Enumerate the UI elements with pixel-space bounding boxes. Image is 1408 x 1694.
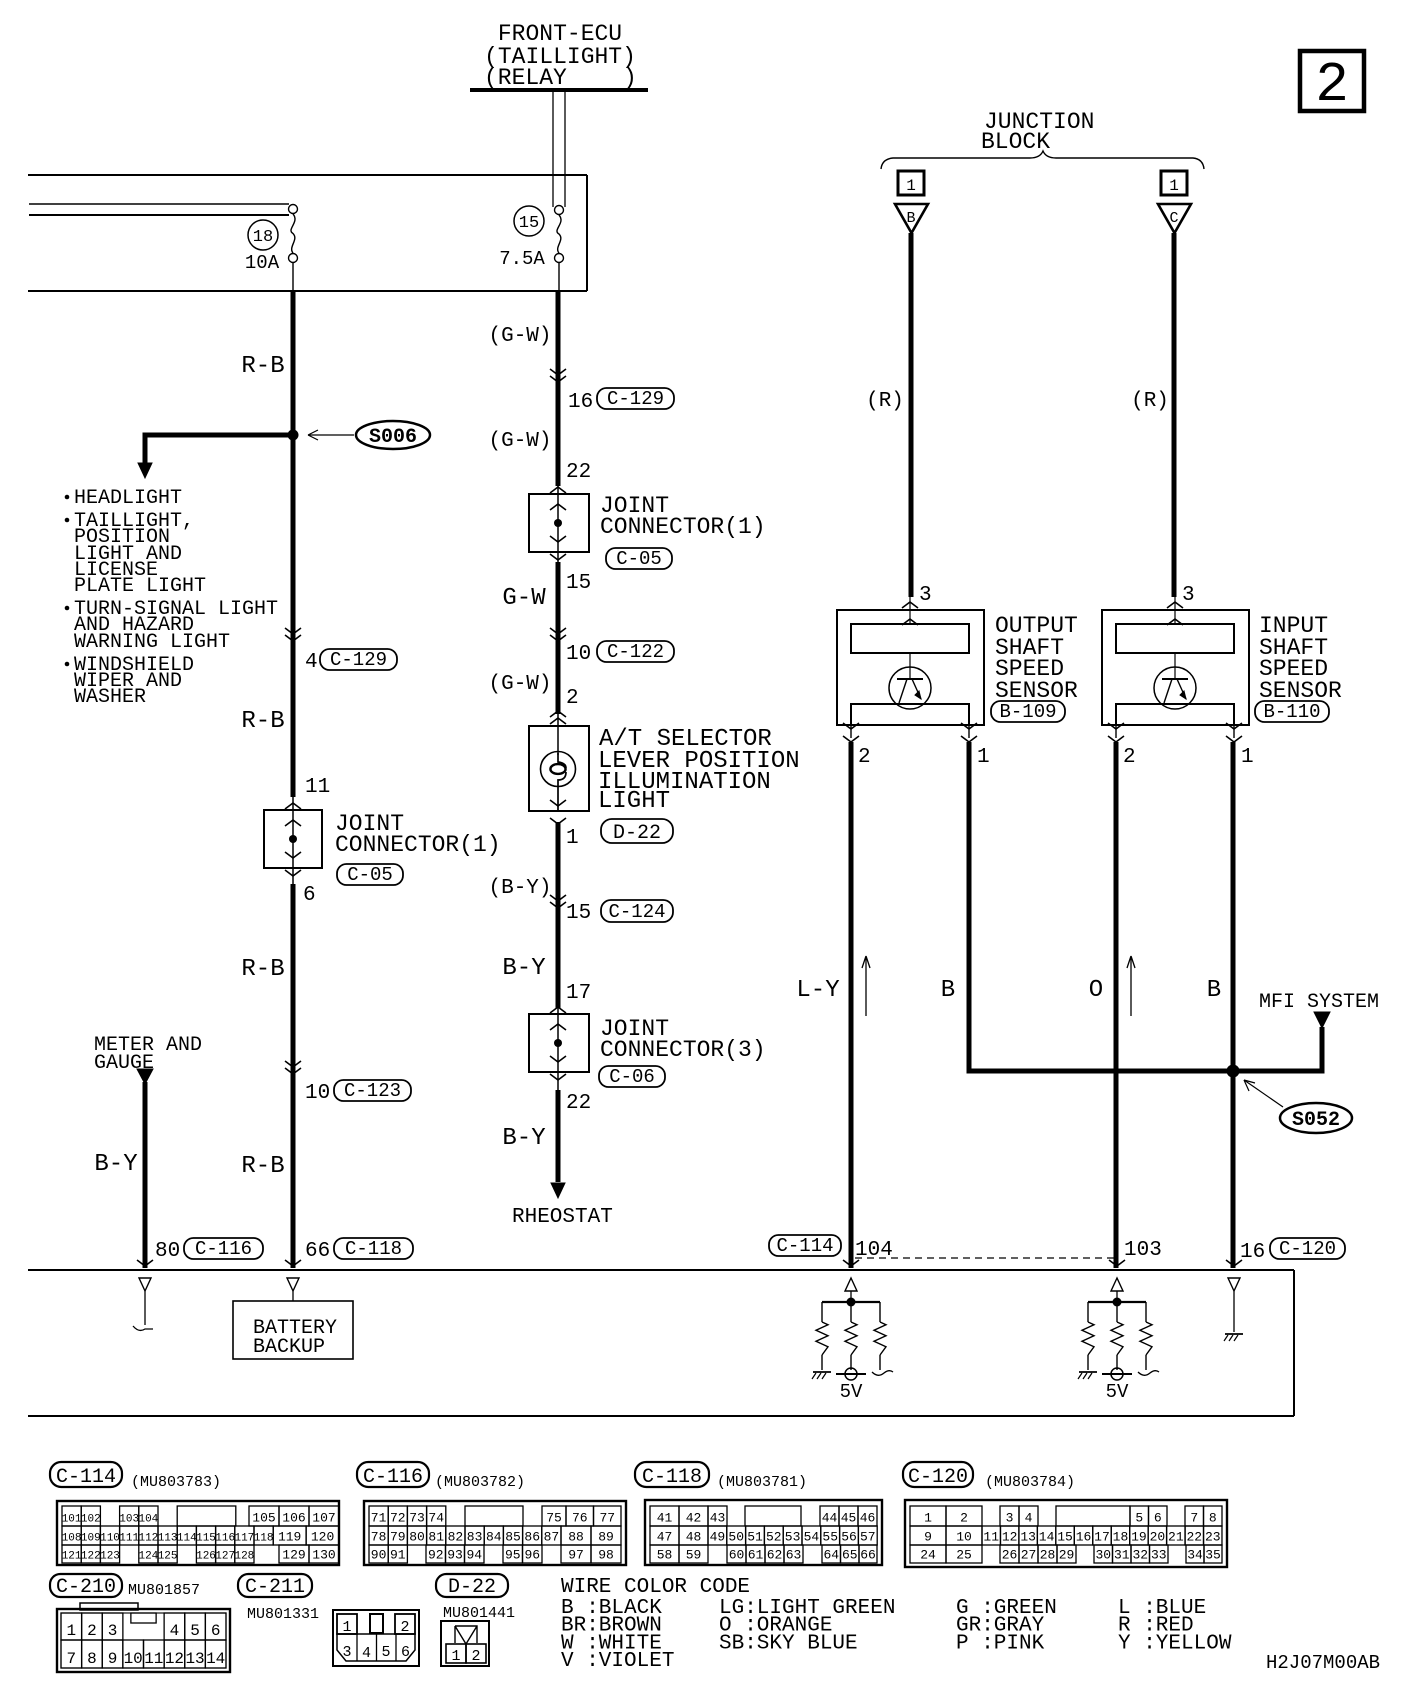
svg-text:WASHER: WASHER — [74, 686, 146, 709]
svg-text:B-Y: B-Y — [502, 1125, 545, 1152]
svg-text:C-06: C-06 — [609, 1066, 655, 1088]
svg-text:Y :YELLOW: Y :YELLOW — [1118, 1632, 1232, 1655]
svg-text:14: 14 — [1039, 1530, 1055, 1545]
svg-text:(R): (R) — [866, 390, 904, 413]
svg-text:116: 116 — [215, 1533, 235, 1545]
svg-text:5: 5 — [381, 1644, 390, 1661]
svg-text:1: 1 — [67, 1622, 77, 1640]
svg-text:C-210: C-210 — [56, 1576, 116, 1599]
svg-text:B: B — [906, 210, 915, 227]
svg-text:10: 10 — [305, 1082, 330, 1105]
svg-text:98: 98 — [598, 1548, 614, 1563]
svg-text:11: 11 — [144, 1650, 163, 1668]
svg-text:75: 75 — [546, 1511, 562, 1526]
svg-text:15: 15 — [566, 572, 591, 595]
svg-text:58: 58 — [657, 1548, 673, 1563]
svg-text:106: 106 — [282, 1511, 305, 1526]
svg-text:2: 2 — [960, 1511, 968, 1526]
svg-text:7.5A: 7.5A — [499, 248, 545, 270]
svg-text:22: 22 — [566, 461, 591, 484]
svg-text:32: 32 — [1132, 1548, 1148, 1563]
svg-text:C-118: C-118 — [345, 1238, 402, 1260]
svg-text:108: 108 — [62, 1533, 82, 1545]
svg-text:54: 54 — [804, 1530, 820, 1545]
svg-text:C-05: C-05 — [347, 864, 393, 886]
svg-text:12: 12 — [165, 1650, 184, 1668]
svg-text:2: 2 — [1123, 746, 1136, 769]
svg-text:D-22: D-22 — [448, 1576, 496, 1599]
svg-text:96: 96 — [524, 1548, 540, 1563]
svg-text:90: 90 — [371, 1548, 387, 1563]
svg-text:13: 13 — [185, 1650, 204, 1668]
svg-text:128: 128 — [234, 1551, 254, 1563]
svg-text:55: 55 — [822, 1530, 838, 1545]
svg-text:1: 1 — [566, 827, 579, 850]
svg-text:52: 52 — [766, 1530, 782, 1545]
svg-text:126: 126 — [196, 1551, 216, 1563]
svg-text:24: 24 — [920, 1548, 936, 1563]
svg-text:103: 103 — [119, 1514, 139, 1526]
svg-text:(G-W): (G-W) — [488, 673, 551, 696]
svg-text:4: 4 — [1025, 1511, 1033, 1526]
svg-text:5V: 5V — [1106, 1381, 1129, 1403]
svg-text:35: 35 — [1205, 1548, 1221, 1563]
svg-text:C-124: C-124 — [608, 901, 665, 923]
svg-text:C-129: C-129 — [330, 649, 387, 671]
svg-text:87: 87 — [544, 1530, 560, 1545]
svg-text:29: 29 — [1059, 1548, 1075, 1563]
svg-text:C-118: C-118 — [642, 1466, 702, 1489]
svg-text:26: 26 — [1002, 1548, 1018, 1563]
svg-text:103: 103 — [1124, 1239, 1162, 1262]
svg-text:C-122: C-122 — [607, 641, 664, 663]
svg-text:6: 6 — [1154, 1511, 1162, 1526]
svg-text:114: 114 — [177, 1533, 197, 1545]
svg-text:9: 9 — [924, 1530, 932, 1545]
svg-text:122: 122 — [81, 1551, 101, 1563]
svg-text:77: 77 — [599, 1511, 615, 1526]
svg-text:17: 17 — [566, 982, 591, 1005]
svg-text:28: 28 — [1040, 1548, 1056, 1563]
svg-text:L-Y: L-Y — [796, 977, 839, 1004]
svg-text:11: 11 — [305, 776, 330, 799]
svg-text:B: B — [1207, 977, 1221, 1004]
svg-text:47: 47 — [657, 1530, 673, 1545]
svg-text:80: 80 — [155, 1240, 180, 1263]
svg-text:C-129: C-129 — [607, 388, 664, 410]
svg-text:H2J07M00AB: H2J07M00AB — [1266, 1652, 1380, 1674]
svg-text:94: 94 — [466, 1548, 482, 1563]
svg-text:97: 97 — [568, 1548, 584, 1563]
svg-text:PLATE LIGHT: PLATE LIGHT — [74, 575, 206, 598]
svg-text:RHEOSTAT: RHEOSTAT — [512, 1206, 613, 1229]
svg-text:123: 123 — [100, 1551, 120, 1563]
svg-text:85: 85 — [505, 1530, 521, 1545]
svg-text:2: 2 — [471, 1648, 480, 1665]
svg-text:MU801331: MU801331 — [247, 1606, 319, 1623]
svg-text:84: 84 — [486, 1530, 502, 1545]
svg-text:LIGHT: LIGHT — [598, 788, 670, 815]
svg-text:117: 117 — [234, 1533, 254, 1545]
svg-text:22: 22 — [566, 1092, 591, 1115]
svg-text:110: 110 — [100, 1533, 120, 1545]
svg-text:92: 92 — [428, 1548, 444, 1563]
svg-text:111: 111 — [119, 1533, 139, 1545]
svg-text:34: 34 — [1187, 1548, 1203, 1563]
svg-text:4: 4 — [170, 1622, 180, 1640]
svg-text:D-22: D-22 — [613, 822, 661, 845]
svg-text:SB:SKY BLUE: SB:SKY BLUE — [719, 1632, 858, 1655]
svg-text:15: 15 — [1057, 1530, 1073, 1545]
svg-text:10A: 10A — [245, 252, 280, 274]
svg-text:66: 66 — [860, 1548, 876, 1563]
svg-text:C-120: C-120 — [1279, 1238, 1336, 1260]
svg-text:7: 7 — [1190, 1511, 1198, 1526]
svg-text:9: 9 — [108, 1650, 118, 1668]
svg-text:C-114: C-114 — [776, 1235, 833, 1257]
svg-text:1: 1 — [906, 177, 916, 195]
svg-text:65: 65 — [842, 1548, 858, 1563]
svg-text:16: 16 — [568, 391, 593, 414]
svg-text:2: 2 — [87, 1622, 97, 1640]
svg-text:4: 4 — [305, 651, 318, 674]
svg-text:73: 73 — [409, 1511, 425, 1526]
svg-text:C-116: C-116 — [195, 1238, 252, 1260]
svg-text:124: 124 — [138, 1551, 158, 1563]
svg-text:MU801857: MU801857 — [128, 1582, 200, 1599]
svg-text:C-211: C-211 — [245, 1576, 305, 1599]
svg-text:8: 8 — [87, 1650, 97, 1668]
svg-text:86: 86 — [524, 1530, 540, 1545]
svg-text:74: 74 — [428, 1511, 444, 1526]
svg-text:BLOCK: BLOCK — [981, 129, 1050, 155]
svg-text:50: 50 — [728, 1530, 744, 1545]
svg-text:27: 27 — [1021, 1548, 1037, 1563]
svg-text:8: 8 — [1209, 1511, 1217, 1526]
svg-text:57: 57 — [860, 1530, 876, 1545]
svg-text:5V: 5V — [840, 1381, 863, 1403]
svg-text:C-05: C-05 — [616, 548, 662, 570]
svg-text:C-120: C-120 — [908, 1466, 968, 1489]
svg-text:20: 20 — [1150, 1530, 1166, 1545]
svg-text:130: 130 — [312, 1548, 335, 1563]
svg-text:71: 71 — [371, 1511, 387, 1526]
svg-text:56: 56 — [841, 1530, 857, 1545]
svg-text:107: 107 — [312, 1511, 335, 1526]
svg-text:72: 72 — [390, 1511, 406, 1526]
svg-text:C-116: C-116 — [363, 1466, 423, 1489]
svg-text:25: 25 — [956, 1548, 972, 1563]
svg-text:G-W: G-W — [502, 585, 546, 612]
svg-text:18: 18 — [1113, 1530, 1129, 1545]
svg-text:B-109: B-109 — [999, 701, 1056, 723]
svg-text:15: 15 — [519, 214, 539, 233]
svg-text:119: 119 — [278, 1530, 301, 1545]
svg-text:3: 3 — [919, 584, 932, 607]
svg-text:(MU803782): (MU803782) — [435, 1474, 525, 1491]
svg-text:66: 66 — [305, 1240, 330, 1263]
svg-text:129: 129 — [282, 1548, 305, 1563]
svg-text:120: 120 — [311, 1530, 334, 1545]
svg-text:18: 18 — [253, 228, 273, 247]
svg-text:3: 3 — [1006, 1511, 1014, 1526]
svg-text:V :VIOLET: V :VIOLET — [561, 1650, 674, 1673]
svg-text:(MU803784): (MU803784) — [985, 1474, 1075, 1491]
svg-text:B: B — [941, 977, 955, 1004]
svg-text:15: 15 — [566, 902, 591, 925]
svg-text:89: 89 — [598, 1530, 614, 1545]
svg-text:31: 31 — [1114, 1548, 1130, 1563]
svg-text:R-B: R-B — [241, 708, 284, 735]
svg-text:13: 13 — [1020, 1530, 1036, 1545]
svg-text:6: 6 — [211, 1622, 221, 1640]
svg-text:C-114: C-114 — [56, 1466, 116, 1489]
svg-text:82: 82 — [448, 1530, 464, 1545]
svg-text:113: 113 — [158, 1533, 178, 1545]
svg-text:60: 60 — [729, 1548, 745, 1563]
svg-text:93: 93 — [447, 1548, 463, 1563]
svg-text:101: 101 — [62, 1514, 82, 1526]
svg-text:46: 46 — [860, 1511, 876, 1526]
svg-text:6: 6 — [401, 1644, 410, 1661]
svg-text:51: 51 — [747, 1530, 763, 1545]
svg-text:19: 19 — [1131, 1530, 1147, 1545]
svg-text:CONNECTOR(3): CONNECTOR(3) — [600, 1037, 766, 1063]
svg-text:7: 7 — [67, 1650, 77, 1668]
svg-text:21: 21 — [1168, 1530, 1184, 1545]
svg-text:41: 41 — [657, 1511, 673, 1526]
svg-text:BACKUP: BACKUP — [253, 1336, 325, 1359]
svg-text:62: 62 — [767, 1548, 783, 1563]
svg-text:4: 4 — [362, 1645, 371, 1662]
svg-text:11: 11 — [983, 1530, 999, 1545]
svg-text:P :PINK: P :PINK — [956, 1632, 1045, 1655]
svg-text:88: 88 — [568, 1530, 584, 1545]
svg-text:5: 5 — [190, 1622, 200, 1640]
svg-text:16: 16 — [1076, 1530, 1092, 1545]
svg-text:MU801441: MU801441 — [443, 1605, 515, 1622]
svg-text:1: 1 — [451, 1648, 460, 1665]
svg-text:33: 33 — [1151, 1548, 1167, 1563]
svg-text:79: 79 — [390, 1530, 406, 1545]
svg-text:16: 16 — [1240, 1241, 1265, 1264]
svg-text:B-110: B-110 — [1263, 701, 1320, 723]
svg-text:1: 1 — [924, 1511, 932, 1526]
svg-text:10: 10 — [124, 1650, 143, 1668]
svg-text:CONNECTOR(1): CONNECTOR(1) — [335, 832, 501, 858]
svg-text:WARNING LIGHT: WARNING LIGHT — [74, 631, 230, 654]
svg-text:3: 3 — [1182, 584, 1195, 607]
svg-text:HEADLIGHT: HEADLIGHT — [74, 487, 182, 510]
svg-text:(MU803781): (MU803781) — [717, 1474, 807, 1491]
svg-text:64: 64 — [823, 1548, 839, 1563]
svg-text:B-Y: B-Y — [502, 955, 545, 982]
svg-text:125: 125 — [158, 1551, 178, 1563]
svg-text:1: 1 — [977, 746, 990, 769]
svg-text:3: 3 — [342, 1644, 351, 1661]
svg-text:95: 95 — [505, 1548, 521, 1563]
svg-text:102: 102 — [81, 1514, 101, 1526]
svg-text:109: 109 — [81, 1533, 101, 1545]
svg-text:R-B: R-B — [241, 353, 284, 380]
svg-text:WIRE COLOR CODE: WIRE COLOR CODE — [561, 1576, 750, 1599]
svg-text:30: 30 — [1095, 1548, 1111, 1563]
svg-text:R-B: R-B — [241, 956, 284, 983]
svg-text:83: 83 — [467, 1530, 483, 1545]
svg-text:2: 2 — [1315, 53, 1349, 117]
svg-text:121: 121 — [62, 1551, 82, 1563]
svg-text:59: 59 — [686, 1548, 702, 1563]
svg-text:44: 44 — [822, 1511, 838, 1526]
svg-text:2: 2 — [858, 746, 871, 769]
svg-text:80: 80 — [409, 1530, 425, 1545]
svg-text:S006: S006 — [369, 426, 417, 449]
svg-text:MFI SYSTEM: MFI SYSTEM — [1259, 991, 1379, 1014]
svg-text:118: 118 — [254, 1533, 274, 1545]
svg-text:112: 112 — [138, 1533, 158, 1545]
svg-text:91: 91 — [390, 1548, 406, 1563]
svg-text:49: 49 — [710, 1530, 726, 1545]
svg-text:14: 14 — [206, 1650, 225, 1668]
svg-text:O: O — [1089, 977, 1103, 1004]
svg-text:78: 78 — [371, 1530, 387, 1545]
svg-text:10: 10 — [956, 1530, 972, 1545]
svg-text:R-B: R-B — [241, 1153, 284, 1180]
svg-text:22: 22 — [1186, 1530, 1202, 1545]
svg-text:(RELAY: (RELAY — [484, 65, 567, 91]
svg-text:76: 76 — [572, 1511, 588, 1526]
svg-text:10: 10 — [566, 643, 591, 666]
svg-text:61: 61 — [748, 1548, 764, 1563]
svg-text:2: 2 — [566, 687, 579, 710]
svg-text:17: 17 — [1094, 1530, 1110, 1545]
svg-text:53: 53 — [785, 1530, 801, 1545]
svg-text:CONNECTOR(1): CONNECTOR(1) — [600, 514, 766, 540]
svg-text:127: 127 — [215, 1551, 235, 1563]
svg-text:): ) — [623, 65, 637, 91]
svg-text:12: 12 — [1002, 1530, 1018, 1545]
svg-text:105: 105 — [252, 1511, 275, 1526]
svg-text:1: 1 — [1241, 746, 1254, 769]
svg-text:81: 81 — [428, 1530, 444, 1545]
svg-text:104: 104 — [855, 1239, 893, 1262]
svg-text:C-123: C-123 — [344, 1080, 401, 1102]
svg-text:(B-Y): (B-Y) — [488, 877, 551, 900]
svg-text:1: 1 — [1169, 177, 1179, 195]
svg-text:63: 63 — [786, 1548, 802, 1563]
svg-text:104: 104 — [138, 1514, 158, 1526]
svg-text:B-Y: B-Y — [94, 1151, 137, 1178]
svg-text:45: 45 — [841, 1511, 857, 1526]
svg-text:S052: S052 — [1292, 1109, 1340, 1132]
svg-text:6: 6 — [303, 884, 316, 907]
svg-text:C: C — [1169, 210, 1178, 227]
svg-text:42: 42 — [686, 1511, 702, 1526]
svg-text:(G-W): (G-W) — [488, 430, 551, 453]
svg-text:115: 115 — [196, 1533, 216, 1545]
svg-text:5: 5 — [1135, 1511, 1143, 1526]
svg-text:(R): (R) — [1131, 390, 1169, 413]
svg-text:48: 48 — [686, 1530, 702, 1545]
svg-text:43: 43 — [710, 1511, 726, 1526]
svg-text:3: 3 — [108, 1622, 118, 1640]
svg-text:(MU803783): (MU803783) — [131, 1474, 221, 1491]
svg-text:(G-W): (G-W) — [488, 325, 551, 348]
svg-text:23: 23 — [1205, 1530, 1221, 1545]
